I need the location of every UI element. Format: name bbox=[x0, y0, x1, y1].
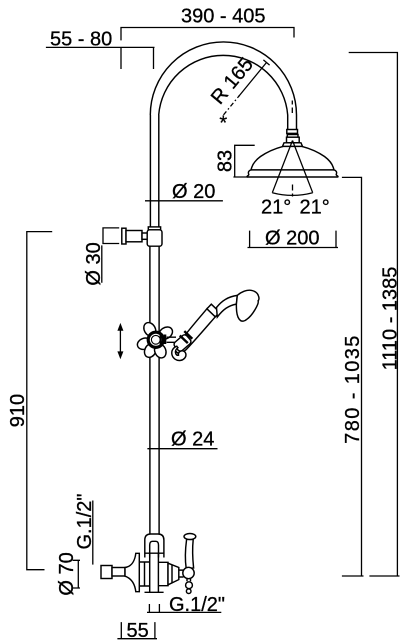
lever ball 2 bbox=[186, 582, 193, 589]
svg-text:390 - 405: 390 - 405 bbox=[181, 6, 266, 28]
holder cuff bbox=[173, 334, 192, 353]
wall bracket neck bbox=[142, 233, 148, 239]
dimension D70 bbox=[56, 552, 80, 595]
svg-text:Ø 20: Ø 20 bbox=[172, 181, 215, 203]
dimension D30 left bbox=[83, 228, 119, 286]
pipe end flange bbox=[145, 591, 164, 593]
pipe collar barrel bbox=[147, 230, 162, 246]
handshower neck bbox=[217, 295, 238, 317]
svg-text:Ø 200: Ø 200 bbox=[265, 227, 319, 249]
shower head rim line bbox=[251, 169, 334, 171]
riser pipe through valve bbox=[150, 553, 159, 592]
valve body right bbox=[159, 562, 169, 585]
label G12 bottom bbox=[147, 594, 225, 616]
svg-text:21°: 21° bbox=[300, 197, 330, 219]
shower head connector rings bbox=[287, 130, 300, 143]
dimension 21 deg labels bbox=[261, 197, 330, 219]
riser pipe lower D24 bbox=[150, 246, 159, 534]
label G12 vertical bbox=[74, 493, 96, 564]
handshower head bbox=[236, 290, 259, 321]
svg-text:83: 83 bbox=[215, 150, 237, 172]
svg-text:Ø 24: Ø 24 bbox=[171, 429, 214, 451]
svg-text:780 - 1035: 780 - 1035 bbox=[342, 334, 364, 444]
dimension label D20 bbox=[145, 181, 223, 203]
svg-text:Ø 70: Ø 70 bbox=[56, 552, 78, 595]
lever drop 3 bbox=[186, 589, 191, 594]
valve escutcheon bbox=[125, 553, 139, 591]
gooseneck arc bbox=[150, 42, 296, 115]
dimension 1110-1385 right bbox=[349, 53, 402, 577]
valve stem bbox=[179, 570, 184, 577]
dimension 390-405 top bbox=[121, 6, 294, 41]
cross handle petals bbox=[136, 320, 175, 359]
svg-text:*: * bbox=[219, 113, 227, 135]
riser pipe upper D20 bbox=[150, 115, 158, 227]
spray cone bbox=[272, 141, 312, 196]
dimension 55 bottom bbox=[117, 620, 157, 642]
lever ball joint bbox=[183, 567, 194, 578]
valve wall square bbox=[101, 566, 112, 579]
handshower handle bbox=[175, 308, 215, 353]
pipe sleeve above collar bbox=[148, 227, 160, 230]
shower head collar bbox=[283, 143, 303, 147]
dimension label D24 bbox=[147, 429, 217, 451]
lever lower stem bbox=[187, 579, 191, 582]
head centerline dashed bbox=[291, 101, 293, 197]
holder hook bbox=[172, 346, 186, 360]
cross handle boss bbox=[148, 332, 163, 347]
handle collar bbox=[207, 304, 220, 317]
wall bracket plate bbox=[122, 228, 126, 244]
lever top disc bbox=[184, 534, 196, 540]
lever shaft bbox=[185, 539, 193, 568]
svg-text:1110 - 1385: 1110 - 1385 bbox=[380, 267, 402, 371]
shower head bell bbox=[247, 146, 338, 177]
wall bracket tube bbox=[126, 231, 142, 242]
handle clamp bands bbox=[180, 331, 193, 343]
valve body left band bbox=[139, 562, 149, 586]
holder arm bbox=[167, 337, 176, 342]
dimension 55-80 top left bbox=[46, 29, 155, 70]
valve cone bbox=[168, 563, 179, 585]
right down pipe to head bbox=[288, 115, 297, 130]
svg-text:910: 910 bbox=[7, 394, 29, 427]
outlet G12 ticks bbox=[149, 604, 159, 612]
dimension D200 bbox=[248, 227, 339, 249]
radius line R165 bbox=[207, 54, 270, 135]
dimension 910 left bbox=[7, 232, 52, 570]
handshower holder mount rings bbox=[161, 335, 165, 345]
valve wall shaft bbox=[112, 568, 125, 577]
valve clamp bbox=[145, 534, 164, 558]
slide arrow bbox=[117, 323, 123, 359]
svg-text:21°: 21° bbox=[261, 197, 291, 219]
dimension 780-1035 right bbox=[342, 177, 364, 576]
dimension 83 bbox=[215, 145, 255, 177]
